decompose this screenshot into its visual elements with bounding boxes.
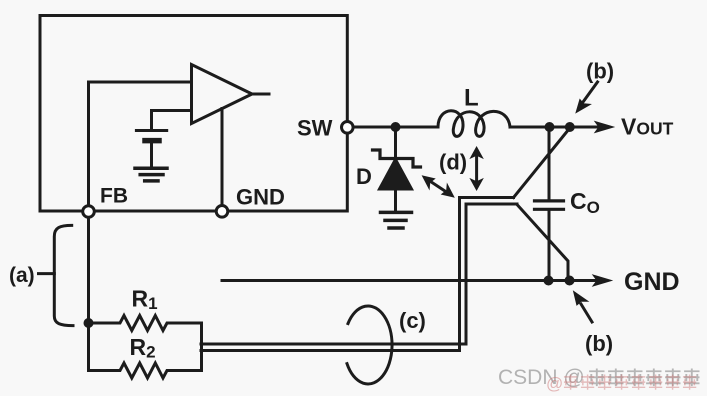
arrow to VOUT (595, 122, 614, 133)
wire GND rail (222, 279, 598, 282)
op-amp U1 (192, 65, 253, 124)
capacitor Co plates (535, 199, 564, 202)
loop arrow (c) (347, 306, 392, 384)
brace (a) (54, 225, 73, 325)
svg-text:R1: R1 (132, 286, 158, 314)
arrow (d) vertical double-headed (475, 155, 478, 182)
arrow (b) top (583, 82, 598, 102)
arrow diagonal double-headed (diode to trace) (429, 181, 448, 194)
svg-text:GND: GND (236, 185, 285, 210)
capacitor Co bottom wire (548, 211, 551, 281)
svg-text:SW: SW (297, 116, 333, 141)
pin SW (342, 122, 354, 134)
reference battery (136, 129, 166, 132)
fat trace outer (201, 198, 514, 351)
arrow to GND label (593, 275, 612, 286)
wire inverting input to reference (152, 111, 192, 131)
node VOUT-Co junction (545, 122, 555, 132)
diode D schottky cathode bar (373, 150, 421, 167)
svg-text:VOUT: VOUT (621, 114, 674, 140)
svg-text:(b): (b) (586, 59, 614, 84)
node VOUT-loop junction (565, 122, 575, 132)
svg-text:L: L (464, 85, 479, 112)
svg-text:D: D (356, 164, 372, 189)
ground (reference) (135, 167, 167, 171)
wire FB feedback to op-amp input (89, 82, 192, 206)
IC box (40, 16, 347, 212)
svg-text:(c): (c) (399, 308, 426, 333)
wire FB down through R nodes (87, 217, 90, 371)
wire SW to inductor (354, 126, 439, 129)
svg-text:GND: GND (624, 268, 680, 296)
fat trace inner (201, 204, 517, 344)
wire inductor to VOUT arrow (510, 126, 600, 129)
resistor R1 (89, 316, 202, 331)
wire R1-R2 right vertical (200, 323, 203, 371)
svg-text:(d): (d) (439, 150, 467, 175)
node FB-R1 junction (84, 318, 94, 328)
diode D triangle (380, 160, 412, 190)
svg-text:R2: R2 (130, 334, 156, 362)
diode D vertical wire (394, 127, 397, 157)
pin GND (216, 206, 228, 218)
svg-text:@: @ (546, 374, 563, 393)
resistor R2 (89, 363, 202, 378)
wire op-amp to GND pin (221, 109, 224, 207)
svg-text:(b): (b) (585, 331, 613, 356)
node GND-Co junction (544, 276, 554, 286)
pin FB (83, 206, 95, 218)
svg-text:(a): (a) (9, 264, 35, 287)
node SW-diode junction (391, 122, 401, 132)
ground (diode) (381, 211, 412, 215)
inductor L (438, 111, 510, 137)
wire upper diagonal to VOUT node (514, 128, 570, 198)
wire lower diagonal to GND node (517, 205, 568, 281)
capacitor Co top wire (548, 127, 551, 200)
svg-text:FB: FB (100, 185, 128, 208)
node GND-loop junction (565, 276, 575, 286)
wire op-amp output stub (252, 93, 269, 96)
wire diode to ground (394, 189, 397, 211)
arrow (b) bottom (581, 304, 592, 322)
svg-text:CO: CO (570, 188, 600, 217)
